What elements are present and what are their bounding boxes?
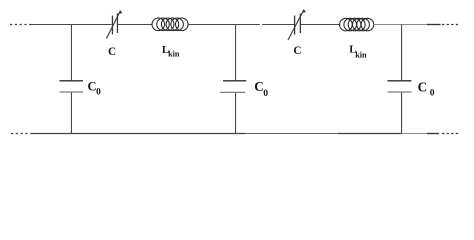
wire: bottom rail dark stub before right dashes: [427, 133, 439, 135]
svg-text:0: 0: [96, 88, 101, 98]
svg-text:C: C: [418, 80, 428, 95]
inductor L1 (L_kin, overlapping-loop coil): [152, 18, 188, 31]
wire: left shunt branch, upper segment: [70, 25, 72, 81]
wire: top rail, L1 to middle node (segment a): [188, 24, 260, 26]
wire: right shunt branch, upper segment: [401, 25, 403, 81]
capacitor C0-left (shunt): [60, 81, 84, 92]
svg-text:kin: kin: [168, 50, 180, 59]
svg-text:0: 0: [430, 88, 435, 99]
svg-text:0: 0: [263, 88, 268, 99]
wire: middle shunt branch, lower segment: [235, 93, 237, 134]
wire: top rail, C2 to inductor L2: [301, 24, 340, 26]
wire: left shunt branch, lower segment: [70, 93, 72, 134]
wire: right shunt branch, lower segment: [401, 93, 403, 134]
capacitor C0-middle (shunt): [220, 81, 246, 93]
wire: bottom rail dashed lead-in (left): [11, 133, 31, 135]
svg-text:C: C: [293, 45, 301, 57]
svg-text:C: C: [254, 79, 264, 94]
wire: middle shunt branch, upper segment: [235, 25, 237, 81]
inductor L2 (L_kin, overlapping-loop coil): [340, 18, 374, 31]
wire: top rail, C1 to inductor L1: [118, 24, 153, 26]
capacitor C1 (series, slashed): [107, 11, 123, 39]
wire: top rail, left node to capacitor C1: [31, 24, 112, 26]
wire: bottom rail solid, middle lighter section: [245, 133, 338, 135]
wire: top rail, dark stub before right dashes: [427, 24, 441, 26]
wire: top rail, middle node to capacitor C2 (segment b, after scan gap): [262, 24, 294, 26]
wire: bottom rail dashed continuation (right): [442, 133, 459, 135]
capacitor C2 (series, slashed): [288, 10, 306, 41]
svg-text:C: C: [108, 46, 116, 58]
wire: bottom rail solid, section before right shunt: [338, 133, 402, 135]
capacitor C0-right (shunt): [388, 81, 412, 92]
svg-text:kin: kin: [355, 51, 367, 60]
wire: top rail dashed continuation (right): [442, 24, 458, 26]
wire: bottom rail solid, light section after right shunt: [402, 133, 428, 135]
wire: top rail dashed lead-in (left): [10, 24, 31, 26]
wire: top rail, L2 to right node (light scanned segment): [374, 24, 428, 26]
wire: bottom rail solid, left section: [31, 133, 245, 135]
